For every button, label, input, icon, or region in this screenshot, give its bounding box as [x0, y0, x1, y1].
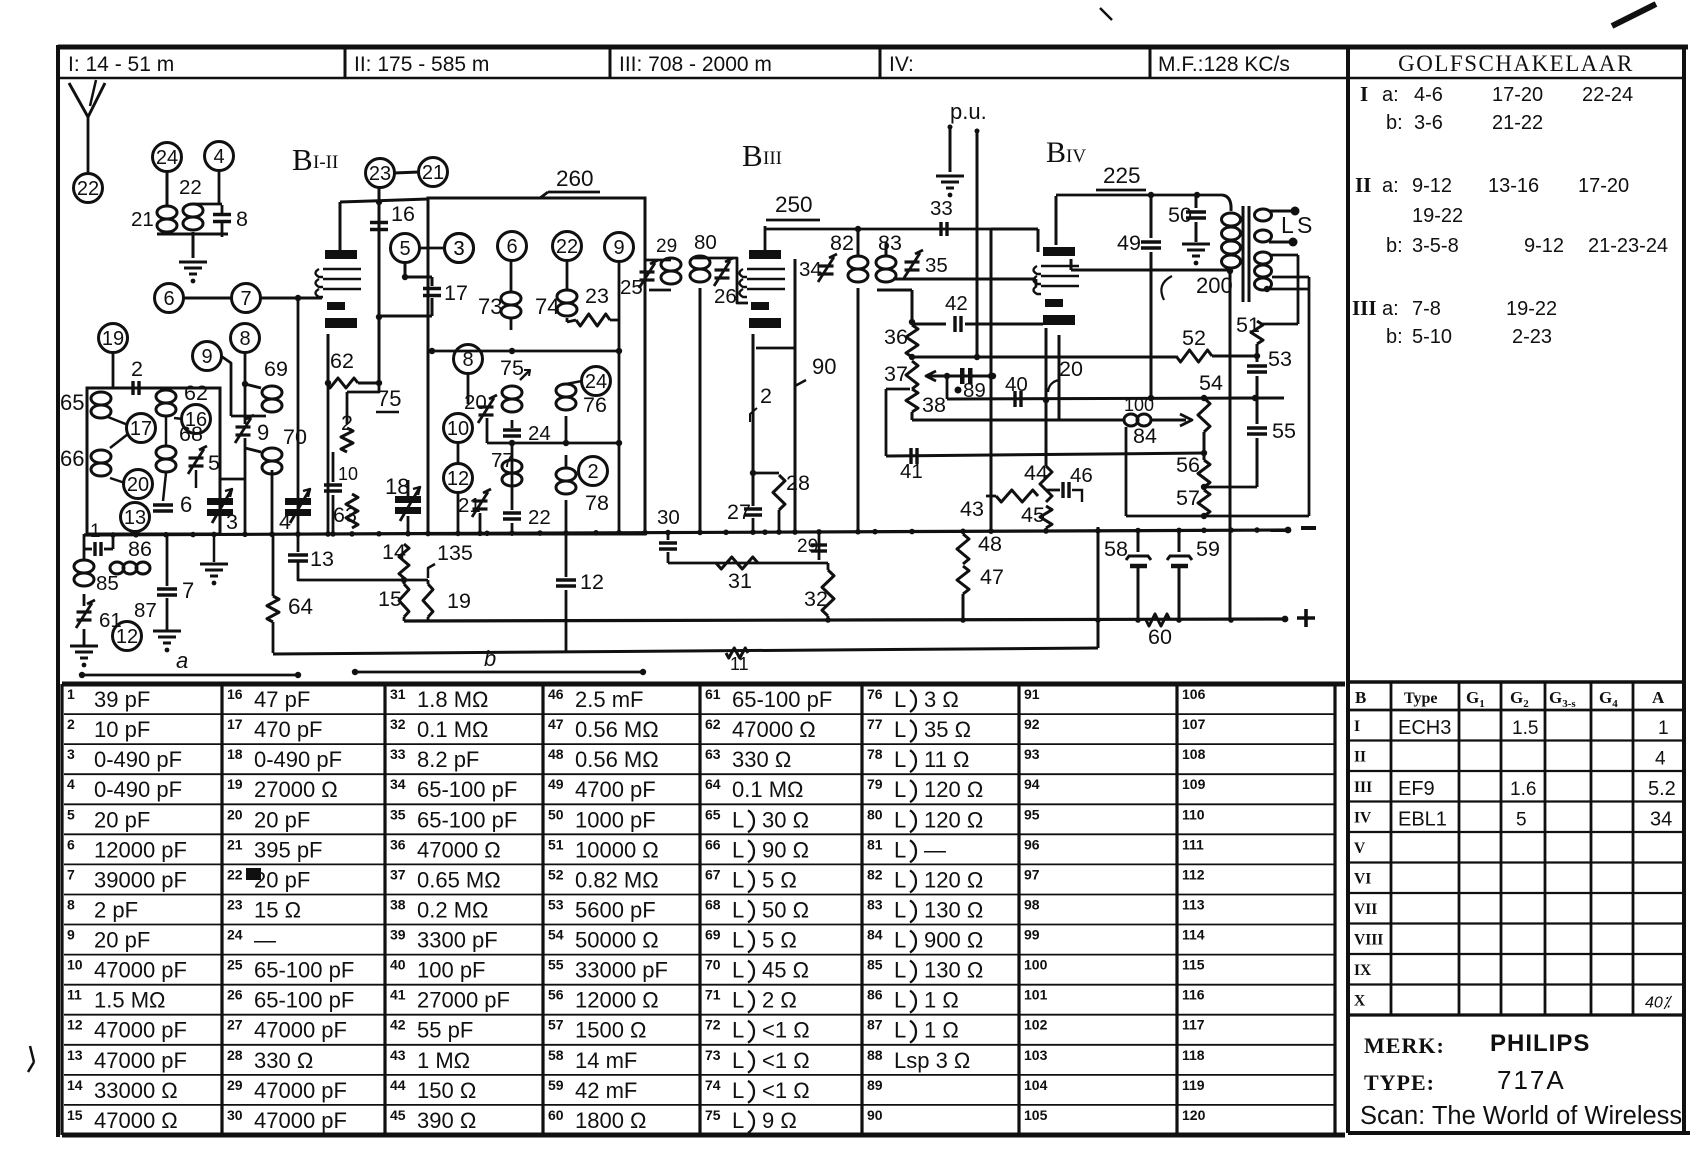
svg-text:L: L — [732, 867, 744, 892]
svg-text:47000 pF: 47000 pF — [254, 1018, 347, 1043]
svg-text:53: 53 — [548, 896, 564, 912]
svg-text:22: 22 — [227, 866, 243, 882]
svg-text:74: 74 — [535, 294, 559, 319]
svg-text:390 Ω: 390 Ω — [417, 1108, 476, 1133]
svg-text:1 Ω: 1 Ω — [924, 988, 959, 1013]
svg-text:9-12: 9-12 — [1412, 175, 1452, 197]
svg-text:IX: IX — [1354, 962, 1372, 979]
trimmer 21b — [473, 499, 488, 502]
wire 9 to coil69 bottom — [221, 356, 231, 416]
resistor 32 — [827, 563, 830, 570]
terminal 22 — [74, 174, 103, 203]
input coil box — [87, 388, 220, 534]
svg-text:31: 31 — [728, 569, 752, 593]
svg-text:74: 74 — [705, 1077, 721, 1093]
line 516 — [1126, 515, 1309, 518]
svg-text:63: 63 — [333, 503, 357, 527]
svg-text:82: 82 — [867, 866, 883, 882]
plus bus dots — [825, 617, 831, 623]
svg-text:130 Ω: 130 Ω — [924, 897, 983, 922]
svg-text:4: 4 — [213, 146, 224, 168]
wire coil68 to cap6 — [163, 473, 166, 501]
svg-text:0.56 MΩ: 0.56 MΩ — [575, 747, 659, 772]
svg-text:VIII: VIII — [1354, 932, 1383, 949]
wire cap13 to 14 — [298, 561, 404, 580]
svg-text:54: 54 — [548, 927, 564, 943]
svg-text:5: 5 — [208, 451, 220, 475]
svg-text:12: 12 — [447, 468, 469, 490]
capacitor 24b — [511, 420, 514, 428]
coil 70 — [262, 448, 282, 461]
svg-text:L: L — [732, 837, 744, 862]
svg-text:47: 47 — [980, 565, 1004, 589]
svg-text:107: 107 — [1182, 716, 1206, 732]
svg-text:117: 117 — [1182, 1017, 1205, 1033]
svg-text:94: 94 — [1024, 776, 1040, 792]
svg-text:98: 98 — [1024, 896, 1040, 912]
svg-text:Lsp 3 Ω: Lsp 3 Ω — [894, 1048, 970, 1073]
svg-text:395 pF: 395 pF — [254, 837, 323, 862]
capacitor 50 — [1195, 195, 1198, 208]
IF transformer 1 trimmer 25 — [640, 270, 655, 273]
svg-text:15 Ω: 15 Ω — [254, 897, 301, 922]
wire 6b down — [510, 260, 513, 292]
wire coil83 bottom — [877, 289, 912, 292]
svg-text:22-24: 22-24 — [1582, 84, 1633, 106]
svg-text:21: 21 — [422, 162, 444, 184]
svg-text:1.5: 1.5 — [1512, 718, 1538, 739]
svg-text:22: 22 — [77, 178, 99, 200]
svg-text:21-22: 21-22 — [1492, 112, 1543, 134]
svg-text:M.F.:128 KC/s: M.F.:128 KC/s — [1158, 53, 1290, 76]
svg-text:86: 86 — [867, 987, 883, 1003]
svg-text:13: 13 — [67, 1047, 83, 1063]
wire 62 to grid node — [358, 382, 379, 385]
svg-text:47000 pF: 47000 pF — [94, 958, 187, 983]
svg-text:I-II: I-II — [313, 152, 338, 173]
svg-text:8: 8 — [462, 349, 473, 371]
node 20 — [124, 470, 153, 499]
svg-text:65-100 pF: 65-100 pF — [254, 988, 354, 1013]
svg-text:8: 8 — [239, 328, 250, 350]
wire 21b stub — [479, 513, 482, 532]
svg-text:51: 51 — [548, 836, 564, 852]
svg-text:50 Ω: 50 Ω — [762, 897, 809, 922]
svg-text:L: L — [732, 928, 744, 953]
capacitor 6 — [153, 503, 173, 506]
wire BIV anode to primary — [1070, 259, 1073, 270]
coil 77 — [502, 460, 522, 473]
resistor 23b — [576, 314, 610, 326]
terminal 5 — [391, 234, 420, 263]
resistor 2 small — [347, 383, 379, 392]
svg-text:36: 36 — [390, 836, 406, 852]
svg-text:120 Ω: 120 Ω — [924, 777, 983, 802]
svg-text:110: 110 — [1182, 806, 1205, 822]
svg-text:X: X — [1354, 993, 1366, 1010]
svg-text:L: L — [894, 687, 906, 712]
svg-text:75: 75 — [705, 1107, 721, 1123]
pot wiper arrow — [928, 375, 993, 378]
wire 5 down — [404, 262, 407, 277]
svg-text:47000 pF: 47000 pF — [254, 1108, 347, 1133]
svg-text:0-490 pF: 0-490 pF — [254, 747, 342, 772]
svg-text:31: 31 — [390, 686, 406, 702]
svg-text:—: — — [924, 837, 946, 862]
svg-text:54: 54 — [1199, 371, 1223, 395]
svg-text:90 Ω: 90 Ω — [762, 837, 809, 862]
svg-text:42 mF: 42 mF — [575, 1078, 637, 1103]
row22 overwrite smudge — [246, 868, 261, 880]
svg-text:29: 29 — [797, 536, 818, 557]
svg-text:L: L — [732, 897, 744, 922]
svg-text:91: 91 — [1024, 686, 1040, 702]
coil 73 — [501, 292, 521, 305]
wire sub 563 — [668, 562, 828, 565]
output transformer core — [1242, 206, 1245, 302]
resistor 48 — [957, 534, 969, 564]
capacitor 17 — [431, 277, 434, 286]
tuning capacitor 3 — [207, 498, 233, 505]
svg-text:38: 38 — [390, 896, 406, 912]
capacitor 49 — [1150, 195, 1153, 238]
svg-text:30 Ω: 30 Ω — [762, 807, 809, 832]
trimmer 9 — [236, 425, 251, 428]
svg-text:75: 75 — [377, 386, 401, 411]
resistor 28 — [753, 472, 779, 475]
svg-text:17: 17 — [444, 281, 468, 305]
svg-text:MERK:: MERK: — [1364, 1033, 1445, 1058]
svg-text:70: 70 — [283, 425, 307, 449]
coil 21 — [157, 206, 177, 219]
svg-text:1.5 MΩ: 1.5 MΩ — [94, 988, 165, 1013]
svg-text:119: 119 — [1182, 1077, 1205, 1093]
svg-text:III: III — [763, 148, 782, 169]
svg-text:1: 1 — [67, 686, 75, 702]
svg-text:92: 92 — [1024, 716, 1040, 732]
svg-text:0.1 MΩ: 0.1 MΩ — [417, 717, 488, 742]
capacitor 27 — [744, 507, 762, 510]
svg-text:60: 60 — [1148, 625, 1172, 649]
resistor 36 — [906, 325, 918, 357]
resistor 62 — [326, 378, 358, 388]
svg-text:64: 64 — [288, 594, 313, 619]
svg-text:27000 Ω: 27000 Ω — [254, 777, 338, 802]
svg-text:64: 64 — [705, 776, 721, 792]
resistor 15 — [399, 584, 409, 617]
svg-text:10: 10 — [447, 418, 469, 440]
svg-text:50000 Ω: 50000 Ω — [575, 928, 659, 953]
wire coil83 top stub — [885, 242, 888, 256]
svg-text:22: 22 — [179, 176, 202, 199]
terminal 3 — [445, 234, 474, 263]
svg-text:39 pF: 39 pF — [94, 687, 150, 712]
trimmer 20b — [479, 405, 494, 408]
svg-text:18: 18 — [227, 746, 243, 762]
svg-text:1 Ω: 1 Ω — [924, 1018, 959, 1043]
svg-text:20: 20 — [127, 474, 149, 496]
outer border frame — [58, 45, 1688, 50]
svg-text:36: 36 — [884, 325, 908, 349]
svg-text:47000 Ω: 47000 Ω — [732, 717, 816, 742]
svg-text:5: 5 — [1516, 810, 1527, 831]
wire coil bottoms — [157, 233, 228, 236]
svg-text:51: 51 — [1236, 313, 1260, 337]
svg-text:43: 43 — [960, 497, 984, 521]
svg-text:B: B — [1046, 136, 1066, 169]
svg-text:4: 4 — [1655, 749, 1666, 770]
svg-text:a:: a: — [1382, 175, 1399, 197]
svg-text:75: 75 — [500, 356, 524, 380]
node 12b — [444, 464, 473, 493]
svg-text:78: 78 — [867, 746, 883, 762]
svg-text:48: 48 — [978, 532, 1002, 556]
svg-text:12000 Ω: 12000 Ω — [575, 988, 659, 1013]
long vertical 991 — [990, 229, 993, 531]
svg-text:42: 42 — [945, 292, 968, 315]
ground left — [83, 629, 86, 645]
op-amp tube BI-II hexode — [325, 250, 357, 259]
svg-text:33000 pF: 33000 pF — [575, 958, 668, 983]
positive bus — [404, 619, 1285, 621]
wire coil82 down — [857, 288, 860, 533]
resistor 19b — [423, 584, 433, 617]
svg-text:14: 14 — [382, 540, 406, 564]
coil 88 — [110, 562, 124, 574]
wire primary bottom to plus — [1229, 271, 1232, 619]
svg-text:26: 26 — [227, 987, 243, 1003]
signal rail 357 — [912, 356, 1176, 359]
svg-text:48: 48 — [548, 746, 564, 762]
svg-text:13: 13 — [124, 507, 146, 529]
resistor 51 — [1251, 321, 1263, 344]
svg-text:72: 72 — [705, 1017, 721, 1033]
svg-text:55: 55 — [548, 957, 564, 973]
coil 82 — [848, 256, 868, 269]
svg-text:20: 20 — [1059, 357, 1083, 381]
svg-text:83: 83 — [878, 231, 902, 255]
wire anode down — [339, 202, 342, 250]
svg-text:120 Ω: 120 Ω — [924, 807, 983, 832]
svg-text:47000 pF: 47000 pF — [94, 1018, 187, 1043]
svg-text:7: 7 — [67, 866, 75, 882]
header band gridlines — [58, 77, 1348, 80]
capacitor 41 — [909, 448, 912, 464]
coil 100/84 — [1124, 414, 1138, 426]
ground below coil 22 — [192, 232, 195, 258]
svg-text:67: 67 — [705, 866, 721, 882]
wire 24 down — [166, 171, 169, 206]
wire 55 to cathode chain — [1206, 486, 1257, 489]
wiper arrow to 54 — [1152, 419, 1186, 422]
ground under cap7 — [166, 598, 169, 630]
svg-text:13-16: 13-16 — [1488, 175, 1539, 197]
node 6b — [498, 232, 527, 261]
svg-text:104: 104 — [1024, 1077, 1048, 1093]
svg-text:84: 84 — [867, 927, 883, 943]
svg-text:L: L — [732, 1078, 744, 1103]
svg-text:130 Ω: 130 Ω — [924, 958, 983, 983]
svg-text:TYPE:: TYPE: — [1364, 1070, 1435, 1095]
svg-text:II: II — [1354, 749, 1366, 766]
svg-text:6: 6 — [180, 492, 192, 517]
svg-text:1: 1 — [90, 521, 101, 542]
capacitor 10 — [332, 452, 335, 482]
svg-text:13: 13 — [310, 547, 334, 571]
svg-text:50: 50 — [548, 806, 564, 822]
svg-text:77: 77 — [491, 449, 514, 472]
svg-text:73: 73 — [705, 1047, 721, 1063]
svg-text:24: 24 — [227, 927, 243, 943]
resistor 60 — [1146, 614, 1170, 626]
wire coil65 to 17 — [108, 417, 128, 425]
svg-text:30: 30 — [227, 1107, 243, 1123]
wire 9b down — [618, 261, 621, 534]
secondary coil LS — [1255, 209, 1272, 221]
svg-text:109: 109 — [1182, 776, 1206, 792]
svg-text:a:: a: — [1382, 84, 1399, 106]
wire BIV cathode down — [1058, 335, 1061, 420]
svg-text:I: I — [1360, 82, 1368, 106]
svg-text:38: 38 — [922, 393, 946, 417]
svg-text:III: 708 - 2000 m: III: 708 - 2000 m — [619, 53, 772, 76]
svg-text:III: III — [1352, 296, 1377, 320]
svg-text:2: 2 — [760, 384, 772, 408]
svg-text:6: 6 — [506, 236, 517, 258]
svg-text:2: 2 — [131, 357, 143, 381]
svg-text:VII: VII — [1354, 901, 1377, 918]
svg-text:L: L — [894, 837, 906, 862]
main negative bus — [84, 530, 1288, 535]
potentiometer 37 — [906, 361, 918, 389]
wire 12b down — [457, 492, 460, 532]
svg-text:44: 44 — [1024, 461, 1048, 485]
svg-text:76: 76 — [867, 686, 883, 702]
node rail 398 — [1230, 397, 1284, 400]
wire 73 bottom — [510, 318, 513, 330]
wire 10b-12b — [457, 442, 460, 464]
svg-text:330 Ω: 330 Ω — [732, 747, 791, 772]
terminal 23 — [366, 159, 395, 188]
svg-text:III: III — [1354, 779, 1372, 796]
resistor 45 — [1040, 506, 1052, 528]
ground mid — [213, 534, 216, 562]
wire BIII screen link — [756, 347, 795, 350]
svg-text:24: 24 — [156, 147, 178, 169]
wire 5 to cap17 — [405, 276, 432, 279]
bracket a — [79, 672, 85, 678]
capacitor 29b — [818, 534, 821, 560]
wire BIV vertical 1046 — [1045, 328, 1048, 466]
svg-text:L: L — [894, 958, 906, 983]
svg-text:3 Ω: 3 Ω — [924, 687, 959, 712]
svg-text:73: 73 — [478, 294, 502, 319]
svg-text:39: 39 — [390, 927, 406, 943]
wire 38 left loop — [886, 388, 910, 391]
wire IFT1 bottoms — [699, 288, 702, 533]
svg-text:90: 90 — [812, 354, 836, 379]
svg-text:46: 46 — [1070, 464, 1093, 487]
pentode BIII — [749, 250, 781, 259]
svg-text:1000 pF: 1000 pF — [575, 807, 656, 832]
svg-text:5600 pF: 5600 pF — [575, 897, 656, 922]
svg-text:L: L — [894, 1018, 906, 1043]
resistor 43 horizontal — [996, 490, 1038, 502]
capacitor 1 — [93, 542, 96, 556]
svg-text:65-100 pF: 65-100 pF — [417, 777, 517, 802]
svg-text:58: 58 — [1104, 537, 1128, 561]
svg-text:82: 82 — [830, 231, 854, 255]
node 13 — [121, 503, 150, 532]
svg-text:18: 18 — [385, 474, 409, 499]
svg-text:53: 53 — [1268, 347, 1292, 371]
resistor 31 — [716, 557, 758, 569]
resistor 44 — [1043, 397, 1049, 403]
svg-text:68: 68 — [705, 896, 721, 912]
terminal 19 — [99, 324, 128, 353]
svg-text:37: 37 — [390, 866, 406, 882]
svg-text:5 Ω: 5 Ω — [762, 928, 797, 953]
resistor 52 — [1176, 350, 1212, 362]
secondary coil 2 — [1255, 252, 1272, 264]
svg-text:19: 19 — [447, 589, 471, 613]
svg-text:0.82 MΩ: 0.82 MΩ — [575, 867, 659, 892]
svg-text:b: b — [484, 646, 496, 671]
tuning capacitor 18 — [395, 496, 421, 503]
pu left lead — [949, 126, 952, 172]
svg-text:260: 260 — [556, 166, 594, 191]
svg-text:52: 52 — [1182, 326, 1206, 350]
coil 68 — [156, 446, 176, 459]
svg-text:A: A — [1652, 688, 1665, 707]
bias line 456 — [886, 453, 1204, 456]
svg-text:120: 120 — [1182, 1107, 1206, 1123]
resistor 64 — [272, 534, 275, 596]
svg-text:a: a — [176, 648, 188, 673]
svg-text:900 Ω: 900 Ω — [924, 928, 983, 953]
wire 8 down — [244, 352, 247, 384]
coil 25 — [661, 258, 681, 271]
svg-text:78: 78 — [585, 491, 609, 515]
svg-text:27: 27 — [727, 500, 751, 524]
svg-text:GOLFSCHAKELAAR: GOLFSCHAKELAAR — [1398, 51, 1634, 76]
svg-text:112: 112 — [1182, 866, 1205, 882]
parts table frame — [62, 682, 1345, 687]
grid line 399 — [946, 376, 949, 399]
terminal 7 — [232, 284, 261, 313]
svg-text:2.5 mF: 2.5 mF — [575, 687, 643, 712]
capacitor 53 — [1256, 344, 1259, 362]
svg-text:89: 89 — [867, 1077, 883, 1093]
svg-text:V: V — [1354, 840, 1366, 857]
node 10b — [444, 414, 473, 443]
svg-text:106: 106 — [1182, 686, 1206, 702]
pu right lead — [976, 130, 979, 357]
svg-text:79: 79 — [867, 776, 883, 792]
svg-text:16: 16 — [185, 409, 207, 431]
svg-text:1800 Ω: 1800 Ω — [575, 1108, 647, 1133]
svg-text:65: 65 — [705, 806, 721, 822]
svg-text:84: 84 — [1133, 424, 1157, 448]
svg-text:0.1 MΩ: 0.1 MΩ — [732, 777, 803, 802]
svg-text:8: 8 — [236, 207, 248, 231]
svg-text:6: 6 — [67, 836, 75, 852]
svg-text:47000 Ω: 47000 Ω — [94, 1108, 178, 1133]
svg-text:47 pF: 47 pF — [254, 687, 310, 712]
svg-text:65-100 pF: 65-100 pF — [254, 958, 354, 983]
svg-text:8: 8 — [67, 896, 75, 912]
svg-text:p.u.: p.u. — [950, 99, 987, 124]
